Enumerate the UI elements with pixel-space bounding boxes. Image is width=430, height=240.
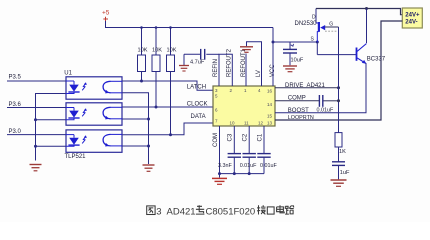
wire REFOUT1/LV ground bridge	[247, 42, 262, 86]
svg-text:AD421: AD421	[167, 207, 196, 218]
hanzi dian (electric)	[277, 205, 285, 213]
pin label REFOUT1	[241, 48, 247, 77]
pin label COM	[213, 133, 219, 147]
ground (opto LED cathodes)	[30, 165, 42, 171]
node LATCH wire: opto U1a collector to AD421 pin 5	[122, 81, 213, 91]
ground (opto emitters)	[143, 165, 155, 171]
resistor R2 10K	[152, 48, 162, 72]
svg-text:D: D	[312, 14, 316, 20]
svg-text:LOOPRTN: LOOPRTN	[288, 115, 314, 121]
capacitor C3 3.3nF	[218, 126, 241, 174]
svg-text:C2: C2	[243, 133, 249, 141]
wire R1 drop from rail	[140, 26, 143, 55]
svg-text:LATCH: LATCH	[187, 85, 206, 91]
svg-text:C8051F020: C8051F020	[206, 207, 256, 218]
hanzi tu (figure)	[147, 206, 155, 215]
wire BC337 collector	[366, 9, 368, 44]
AD421 pin numbers	[215, 88, 273, 126]
svg-text:U1: U1	[64, 71, 72, 77]
power +5 symbol	[102, 10, 110, 29]
svg-text:3.3nF: 3.3nF	[218, 163, 232, 169]
transistor Q1 DN2530 depletion MOSFET	[295, 9, 339, 43]
svg-text:AD421: AD421	[307, 83, 326, 89]
svg-text:COM: COM	[213, 133, 219, 147]
resistor R1 10K	[138, 48, 148, 72]
svg-text:24V+: 24V+	[405, 13, 420, 19]
pin label C3	[228, 133, 234, 141]
wire DRIVE to gate	[275, 27, 340, 133]
node DATA wire: opto U1c collector to AD421 pin 7	[122, 114, 213, 135]
svg-text:BC337: BC337	[367, 56, 386, 62]
wire REFOUT1 riser	[245, 54, 247, 87]
wire COM to bottom rail	[218, 126, 264, 178]
hanzi kou (port)	[267, 207, 274, 214]
wire opto emitter common to ground	[122, 93, 150, 164]
wire VCC to DN2530 source	[273, 41, 319, 44]
op-amp/DAC U2 AD421 body	[213, 86, 275, 126]
svg-text:10K: 10K	[152, 48, 162, 54]
wire P3.5 input	[7, 75, 66, 81]
resistor R4 1K	[335, 133, 346, 162]
hanzi yu (and/with)	[196, 205, 205, 214]
svg-text:DRIVE: DRIVE	[285, 83, 303, 89]
svg-text:10K: 10K	[138, 48, 148, 54]
pin label REFIN	[213, 59, 219, 77]
svg-text:24V-: 24V-	[405, 20, 417, 26]
wire 24V- to LOOPRTN	[275, 21, 402, 120]
wire R3 drop from rail	[169, 26, 172, 55]
wire REFIN/REFOUT2 to 4.7uF	[184, 54, 232, 86]
capacitor C 4.7uF	[190, 49, 205, 66]
svg-text:12: 12	[258, 121, 264, 126]
svg-text:0.01uF: 0.01uF	[260, 163, 277, 169]
svg-text:CLOCK: CLOCK	[187, 101, 208, 107]
svg-text:TLP521: TLP521	[65, 154, 87, 160]
svg-text:15: 15	[267, 114, 273, 119]
svg-text:16: 16	[267, 89, 273, 94]
pin label C2	[243, 133, 249, 141]
svg-text:REFIN: REFIN	[213, 59, 219, 77]
label BOOST	[288, 108, 309, 114]
svg-text:REFOUT2: REFOUT2	[227, 48, 233, 77]
svg-text:10uF: 10uF	[291, 58, 304, 64]
capacitor C2 0.01uF	[240, 126, 257, 174]
svg-text:C3: C3	[228, 133, 234, 141]
svg-text:10K: 10K	[167, 48, 177, 54]
label LOOPRTN	[288, 115, 314, 121]
capacitor C 1uF	[332, 162, 350, 180]
svg-text:3: 3	[156, 207, 161, 218]
ground (4.7uF)	[179, 54, 189, 71]
svg-text:G: G	[329, 22, 333, 28]
svg-text:4.7uF: 4.7uF	[190, 59, 205, 65]
wire 24V+ top rail	[316, 7, 402, 15]
pin label REFOUT2	[227, 48, 233, 77]
pin label LV	[256, 70, 262, 77]
wire BC337 emitter to BOOST	[275, 63, 366, 113]
ground (10uF)	[283, 66, 297, 72]
wire R3 to DATA node	[169, 72, 172, 137]
wire opto LED cathode common to ground	[34, 94, 66, 161]
ground (REFOUT1/LV bridge)	[240, 47, 253, 53]
wire R1 to LATCH node	[140, 72, 143, 83]
pin label VCC	[270, 64, 276, 77]
svg-text:DN2530: DN2530	[295, 21, 318, 27]
svg-text:DATA: DATA	[191, 114, 206, 120]
capacitor C1 0.01uF	[257, 126, 277, 174]
hanzi jie (interface-1)	[257, 205, 266, 214]
caption figure 3	[147, 205, 294, 217]
svg-text:COMP: COMP	[288, 96, 306, 102]
svg-text:0.01uF: 0.01uF	[317, 108, 334, 114]
svg-text:13: 13	[267, 121, 273, 126]
ground (COM)	[212, 178, 227, 184]
opto-coupler U1 channel c (P3.0/DATA)	[65, 130, 123, 160]
pin label C1	[257, 133, 263, 141]
wire VCC drop from rail	[272, 28, 275, 87]
hanzi lu (circuit/road)	[285, 206, 294, 214]
svg-text:11: 11	[244, 121, 249, 126]
wire COMP	[275, 96, 339, 102]
svg-text:10: 10	[230, 121, 236, 126]
label DRIVE AD421	[285, 83, 326, 89]
svg-text:14: 14	[267, 102, 273, 107]
svg-text:P3.5: P3.5	[9, 75, 22, 81]
svg-text:P3.6: P3.6	[9, 102, 22, 108]
transistor Q2 BC337 NPN	[317, 42, 386, 64]
capacitor C 0.01uF (COMP)	[317, 95, 334, 114]
wire P3.0 input	[7, 129, 66, 135]
resistor R3 10K	[167, 48, 177, 72]
svg-text:P3.0: P3.0	[9, 129, 22, 135]
node CLOCK wire: opto U1b collector to AD421 pin 6	[122, 101, 213, 107]
connector J1 24V loop supply	[402, 8, 422, 28]
capacitor C 10uF (VCC decoupling)	[283, 42, 304, 65]
svg-text:BOOST: BOOST	[288, 108, 309, 114]
wire P3.6 input	[7, 102, 66, 108]
wire +5 top rail	[106, 27, 274, 29]
svg-text:+5: +5	[102, 10, 110, 17]
opto-coupler U1 channel a (P3.5/LATCH) TLP521	[64, 71, 122, 100]
svg-text:0.01uF: 0.01uF	[240, 163, 257, 169]
svg-text:C1: C1	[257, 133, 263, 141]
ground (1uF)	[331, 180, 347, 186]
svg-text:1uF: 1uF	[340, 170, 350, 176]
wire R2 drop from rail	[155, 26, 158, 55]
svg-text:1K: 1K	[339, 149, 346, 155]
opto-coupler U1 channel b (P3.6/CLOCK)	[66, 103, 122, 125]
wire R2 to CLOCK node	[155, 72, 158, 109]
